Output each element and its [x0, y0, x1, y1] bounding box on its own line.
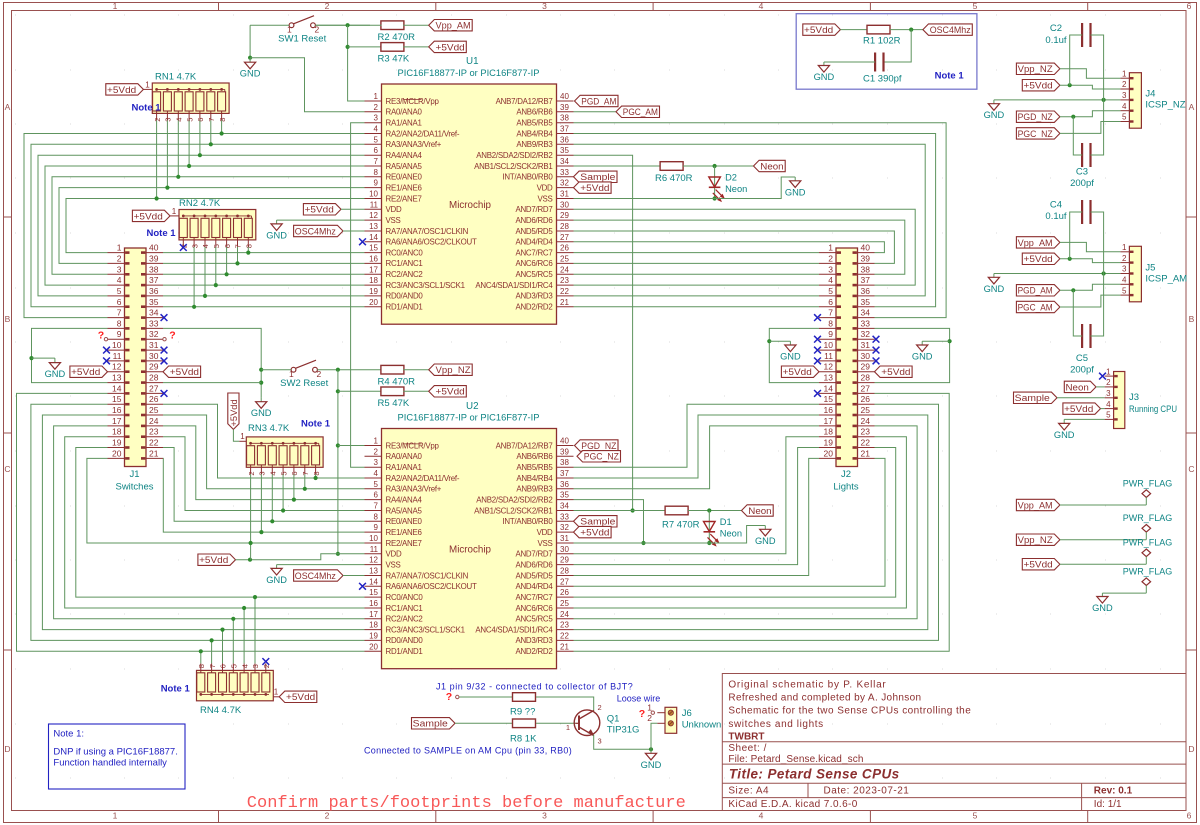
- svg-text:C1 390pf: C1 390pf: [863, 74, 902, 85]
- svg-text:ANB2/SDA2/SDI2/RB2: ANB2/SDA2/SDI2/RB2: [476, 151, 552, 160]
- svg-text:2: 2: [374, 103, 379, 112]
- svg-text:17: 17: [369, 265, 378, 274]
- svg-text:ANC4/SDA1/SDI1/RC4: ANC4/SDA1/SDI1/RC4: [475, 625, 553, 634]
- svg-text:C5: C5: [1076, 353, 1088, 364]
- svg-text:D: D: [1188, 744, 1194, 754]
- svg-text:28: 28: [149, 373, 159, 383]
- svg-text:30: 30: [560, 545, 569, 554]
- svg-text:21: 21: [149, 448, 159, 458]
- svg-text:18: 18: [369, 621, 378, 630]
- svg-text:INT/ANB0/RB0: INT/ANB0/RB0: [502, 517, 553, 526]
- svg-text:OSC4Mhz: OSC4Mhz: [295, 571, 336, 581]
- svg-text:RA5/ANA5: RA5/ANA5: [386, 506, 423, 515]
- svg-text:8: 8: [245, 244, 254, 248]
- svg-text:3: 3: [251, 664, 260, 668]
- svg-text:40: 40: [560, 92, 569, 101]
- svg-text:Vpp_AM: Vpp_AM: [1018, 238, 1053, 248]
- svg-text:11: 11: [824, 351, 833, 361]
- svg-text:+5Vdd: +5Vdd: [1064, 404, 1093, 414]
- svg-text:Neon: Neon: [725, 184, 747, 194]
- svg-text:RC0/ANC0: RC0/ANC0: [386, 593, 424, 602]
- svg-text:RE2/ANE7: RE2/ANE7: [386, 539, 422, 548]
- svg-text:36: 36: [560, 480, 569, 489]
- svg-text:RN1 4.7K: RN1 4.7K: [155, 72, 197, 83]
- svg-text:27: 27: [560, 577, 569, 586]
- svg-text:RD0/AND0: RD0/AND0: [386, 292, 424, 301]
- svg-text:RC2/ANC2: RC2/ANC2: [386, 615, 423, 624]
- svg-text:RA3/ANA3/Vref+: RA3/ANA3/Vref+: [386, 485, 442, 494]
- svg-text:AND6/RD6: AND6/RD6: [515, 216, 553, 225]
- svg-text:1: 1: [1122, 69, 1127, 78]
- svg-text:9: 9: [374, 523, 379, 532]
- svg-text:5: 5: [1122, 286, 1127, 295]
- svg-text:+5Vdd: +5Vdd: [804, 25, 833, 35]
- svg-text:4: 4: [175, 118, 184, 122]
- svg-text:OSC4Mhz: OSC4Mhz: [295, 226, 336, 236]
- svg-text:C4: C4: [1050, 200, 1062, 211]
- svg-text:VSS: VSS: [386, 216, 401, 225]
- svg-text:ANB1/SCL2/SCK2/RB1: ANB1/SCL2/SCK2/RB1: [474, 506, 552, 515]
- svg-text:AND6/RD6: AND6/RD6: [515, 560, 553, 569]
- svg-text:12: 12: [369, 556, 378, 565]
- svg-text:RD1/AND1: RD1/AND1: [386, 303, 423, 312]
- svg-text:RA1/ANA1: RA1/ANA1: [386, 463, 422, 472]
- svg-text:30: 30: [560, 200, 569, 209]
- svg-text:PWR_FLAG: PWR_FLAG: [1123, 538, 1173, 548]
- svg-text:D1: D1: [720, 517, 732, 527]
- svg-text:8: 8: [374, 168, 379, 177]
- svg-text:2: 2: [117, 253, 122, 263]
- svg-text:18: 18: [112, 427, 122, 437]
- svg-text:6: 6: [117, 297, 122, 307]
- svg-text:15: 15: [824, 394, 834, 404]
- svg-text:32: 32: [560, 523, 569, 532]
- svg-text:GND: GND: [1092, 603, 1113, 613]
- svg-text:6: 6: [196, 118, 205, 122]
- svg-text:RC0/ANC0: RC0/ANC0: [386, 248, 424, 257]
- svg-text:34: 34: [560, 502, 569, 511]
- svg-text:15: 15: [369, 588, 378, 597]
- svg-text:8: 8: [828, 318, 833, 328]
- svg-text:28: 28: [861, 373, 871, 383]
- svg-text:29: 29: [861, 362, 871, 372]
- svg-text:RA5/ANA5: RA5/ANA5: [386, 162, 423, 171]
- svg-text:DNP if using a PIC16F18877.: DNP if using a PIC16F18877.: [53, 747, 177, 758]
- svg-text:RN2 4.7K: RN2 4.7K: [179, 198, 221, 209]
- svg-text:5: 5: [117, 286, 122, 296]
- svg-text:File: Petard_Sense.kicad_sch: File: Petard_Sense.kicad_sch: [728, 754, 863, 765]
- svg-text:PGC_NZ: PGC_NZ: [1018, 129, 1054, 139]
- svg-text:Note 1: Note 1: [132, 103, 162, 114]
- svg-text:20: 20: [369, 298, 378, 307]
- svg-text:14: 14: [369, 577, 378, 586]
- svg-text:ICSP_NZ: ICSP_NZ: [1145, 100, 1185, 111]
- svg-text:+5Vdd: +5Vdd: [305, 205, 334, 215]
- svg-text:1: 1: [566, 723, 570, 732]
- svg-text:1: 1: [1106, 367, 1111, 376]
- svg-text:RA1/ANA1: RA1/ANA1: [386, 119, 422, 128]
- svg-text:Vpp_NZ: Vpp_NZ: [436, 365, 472, 375]
- svg-text:GND: GND: [45, 369, 66, 379]
- svg-text:VSS: VSS: [537, 539, 552, 548]
- svg-text:20: 20: [112, 448, 122, 458]
- svg-text:3: 3: [117, 264, 122, 274]
- svg-text:VDD: VDD: [537, 528, 553, 537]
- svg-text:U1: U1: [466, 56, 479, 67]
- svg-text:4: 4: [240, 664, 249, 668]
- svg-text:31: 31: [560, 190, 569, 199]
- svg-text:RE2/ANE7: RE2/ANE7: [386, 194, 422, 203]
- svg-text:J1 pin 9/32 - connected to col: J1 pin 9/32 - connected to collector of …: [436, 682, 633, 692]
- svg-text:OSC4Mhz: OSC4Mhz: [930, 25, 971, 35]
- svg-text:+5Vdd: +5Vdd: [580, 528, 609, 538]
- svg-text:40: 40: [861, 243, 871, 253]
- svg-text:36: 36: [560, 135, 569, 144]
- svg-text:R4 470R: R4 470R: [378, 376, 416, 387]
- svg-text:18: 18: [824, 427, 834, 437]
- svg-text:37: 37: [861, 275, 871, 285]
- svg-text:38: 38: [560, 114, 569, 123]
- svg-text:9: 9: [117, 329, 122, 339]
- svg-text:13: 13: [824, 373, 834, 383]
- svg-text:15: 15: [369, 244, 378, 253]
- svg-text:Refreshed and completed by A.: Refreshed and completed by A. Johnson: [728, 693, 921, 704]
- svg-text:Title: Petard Sense CPUs: Title: Petard Sense CPUs: [729, 766, 900, 781]
- svg-text:9: 9: [828, 329, 833, 339]
- svg-text:2: 2: [1122, 254, 1127, 263]
- svg-text:23: 23: [560, 621, 569, 630]
- svg-text:Size: A4: Size: A4: [728, 785, 769, 796]
- svg-text:SW2 Reset: SW2 Reset: [280, 378, 328, 389]
- svg-text:R5 47K: R5 47K: [378, 398, 410, 409]
- svg-text:3: 3: [828, 264, 833, 274]
- svg-text:1: 1: [117, 243, 122, 253]
- svg-text:RA6/ANA6/OSC2/CLKOUT: RA6/ANA6/OSC2/CLKOUT: [386, 582, 477, 591]
- svg-text:27: 27: [149, 383, 159, 393]
- svg-text:ANB9/RB3: ANB9/RB3: [516, 140, 553, 149]
- svg-text:11: 11: [113, 351, 122, 361]
- svg-text:4: 4: [759, 1, 764, 11]
- svg-text:ANB9/RB3: ANB9/RB3: [516, 485, 553, 494]
- svg-text:2: 2: [374, 447, 379, 456]
- svg-text:31: 31: [149, 340, 159, 350]
- svg-text:27: 27: [560, 233, 569, 242]
- svg-text:GND: GND: [912, 352, 933, 362]
- svg-text:+5Vdd: +5Vdd: [580, 183, 609, 193]
- svg-text:14: 14: [369, 233, 378, 242]
- svg-text:0.1uf: 0.1uf: [1045, 35, 1066, 46]
- svg-text:RD1/AND1: RD1/AND1: [386, 647, 423, 656]
- svg-text:ANC5/RC5: ANC5/RC5: [515, 615, 553, 624]
- svg-text:37: 37: [560, 469, 569, 478]
- svg-text:Note 1:: Note 1:: [53, 729, 84, 740]
- svg-text:AND2/RD2: AND2/RD2: [515, 303, 552, 312]
- svg-text:34: 34: [861, 308, 871, 318]
- svg-text:25: 25: [149, 405, 159, 415]
- svg-text:7: 7: [374, 157, 379, 166]
- svg-text:+5Vdd: +5Vdd: [71, 367, 100, 377]
- svg-text:16: 16: [824, 405, 834, 415]
- svg-text:AND4/RD4: AND4/RD4: [515, 582, 553, 591]
- svg-text:35: 35: [560, 491, 569, 500]
- svg-text:18: 18: [369, 276, 378, 285]
- svg-text:4: 4: [269, 471, 278, 475]
- svg-text:8: 8: [312, 471, 321, 475]
- svg-text:30: 30: [861, 351, 871, 361]
- svg-text:ANB7/DA12/RB7: ANB7/DA12/RB7: [496, 441, 553, 450]
- svg-text:GND: GND: [814, 72, 835, 82]
- svg-text:+5Vdd: +5Vdd: [286, 692, 315, 702]
- svg-text:0.1uf: 0.1uf: [1045, 211, 1066, 222]
- svg-text:7: 7: [207, 118, 216, 122]
- svg-text:5: 5: [374, 480, 379, 489]
- svg-text:KiCad E.D.A. kicad 7.0.6-0: KiCad E.D.A. kicad 7.0.6-0: [728, 799, 857, 810]
- svg-text:GND: GND: [984, 284, 1005, 294]
- svg-text:C3: C3: [1076, 167, 1088, 178]
- svg-text:7: 7: [828, 308, 833, 318]
- svg-text:PGD_AM: PGD_AM: [1018, 286, 1053, 296]
- svg-text:1: 1: [374, 437, 379, 446]
- svg-text:19: 19: [824, 438, 834, 448]
- svg-text:PGD_AM: PGD_AM: [581, 96, 616, 106]
- svg-text:TIP31G: TIP31G: [607, 724, 640, 735]
- svg-text:GND: GND: [251, 408, 272, 418]
- svg-text:R9 ??: R9 ??: [510, 707, 535, 718]
- svg-text:J3: J3: [1129, 392, 1139, 403]
- svg-text:ANB6/RB6: ANB6/RB6: [516, 452, 553, 461]
- svg-text:PGC_AM: PGC_AM: [623, 107, 658, 117]
- svg-text:3: 3: [190, 244, 199, 248]
- svg-text:5: 5: [230, 664, 239, 668]
- svg-text:6: 6: [374, 491, 379, 500]
- svg-text:A: A: [5, 102, 11, 112]
- svg-text:11: 11: [370, 200, 379, 209]
- svg-text:23: 23: [560, 276, 569, 285]
- svg-text:37: 37: [560, 125, 569, 134]
- svg-text:ANB4/RB4: ANB4/RB4: [516, 474, 553, 483]
- svg-text:39: 39: [861, 253, 871, 263]
- svg-text:RC3/ANC3/SCL1/SCK1: RC3/ANC3/SCL1/SCK1: [386, 281, 465, 290]
- svg-text:TWBRT: TWBRT: [728, 732, 764, 743]
- svg-text:35: 35: [560, 146, 569, 155]
- svg-text:PGD_NZ: PGD_NZ: [581, 441, 617, 451]
- svg-text:B: B: [5, 314, 11, 324]
- svg-text:20: 20: [369, 642, 378, 651]
- svg-text:32: 32: [861, 329, 871, 339]
- svg-text:39: 39: [149, 253, 159, 263]
- svg-text:21: 21: [861, 448, 871, 458]
- svg-text:GND: GND: [266, 575, 287, 585]
- svg-text:Confirm parts/footprints befor: Confirm parts/footprints before manufact…: [247, 793, 686, 812]
- svg-text:+5Vdd: +5Vdd: [229, 399, 239, 426]
- svg-text:8: 8: [117, 318, 122, 328]
- svg-text:5: 5: [1106, 411, 1111, 420]
- svg-text:5: 5: [973, 811, 978, 821]
- svg-text:200pf: 200pf: [1070, 178, 1094, 189]
- svg-text:ANB4/RB4: ANB4/RB4: [516, 129, 553, 138]
- svg-text:?: ?: [169, 330, 175, 342]
- svg-text:4: 4: [374, 469, 379, 478]
- svg-text:GND: GND: [984, 110, 1005, 120]
- svg-text:13: 13: [369, 222, 378, 231]
- svg-text:10: 10: [369, 190, 378, 199]
- svg-text:A: A: [1189, 102, 1195, 112]
- svg-text:VSS: VSS: [386, 560, 401, 569]
- svg-text:ANC7/RC7: ANC7/RC7: [515, 248, 552, 257]
- svg-text:37: 37: [149, 275, 159, 285]
- svg-text:36: 36: [149, 286, 159, 296]
- svg-text:+5Vdd: +5Vdd: [1024, 560, 1053, 570]
- svg-text:36: 36: [861, 286, 871, 296]
- svg-text:Id: 1/1: Id: 1/1: [1094, 799, 1122, 810]
- svg-text:3: 3: [374, 458, 379, 467]
- svg-text:SW1 Reset: SW1 Reset: [278, 34, 326, 45]
- svg-text:40: 40: [149, 243, 159, 253]
- svg-text:40: 40: [560, 437, 569, 446]
- svg-text:2: 2: [247, 471, 256, 475]
- svg-text:ANC5/RC5: ANC5/RC5: [515, 270, 553, 279]
- svg-text:28: 28: [560, 222, 569, 231]
- svg-text:25: 25: [560, 254, 569, 263]
- svg-text:Vpp_AM: Vpp_AM: [1018, 500, 1053, 510]
- svg-text:ANB7/DA12/RB7: ANB7/DA12/RB7: [496, 97, 553, 106]
- svg-text:12: 12: [824, 362, 834, 372]
- svg-text:ANC6/RC6: ANC6/RC6: [515, 259, 553, 268]
- svg-text:RA6/ANA6/OSC2/CLKOUT: RA6/ANA6/OSC2/CLKOUT: [386, 238, 477, 247]
- svg-text:26: 26: [861, 394, 871, 404]
- svg-text:Lights: Lights: [833, 482, 859, 493]
- svg-text:4: 4: [1122, 102, 1127, 111]
- svg-text:1: 1: [145, 81, 150, 90]
- svg-text:26: 26: [560, 588, 569, 597]
- svg-text:17: 17: [824, 416, 834, 426]
- svg-text:+5Vdd: +5Vdd: [170, 367, 199, 377]
- svg-text:4: 4: [1122, 276, 1127, 285]
- svg-text:3: 3: [258, 471, 267, 475]
- svg-text:J2: J2: [841, 469, 851, 480]
- svg-text:RN4 4.7K: RN4 4.7K: [200, 705, 242, 716]
- svg-text:J1: J1: [129, 469, 139, 480]
- svg-text:C: C: [1188, 464, 1194, 474]
- svg-text:1: 1: [113, 1, 118, 11]
- svg-text:5: 5: [185, 118, 194, 122]
- svg-text:Rev: 0.1: Rev: 0.1: [1094, 785, 1133, 796]
- svg-text:34: 34: [560, 157, 569, 166]
- svg-text:21: 21: [560, 642, 569, 651]
- svg-text:AND2/RD2: AND2/RD2: [515, 647, 552, 656]
- svg-text:24: 24: [560, 265, 569, 274]
- svg-text:Date: 2023-07-21: Date: 2023-07-21: [824, 785, 910, 796]
- svg-text:Note 1: Note 1: [147, 228, 177, 239]
- svg-text:R2 470R: R2 470R: [378, 32, 416, 43]
- svg-text:+5Vdd: +5Vdd: [199, 555, 228, 565]
- svg-text:Q1: Q1: [607, 714, 620, 725]
- svg-text:38: 38: [560, 458, 569, 467]
- svg-text:R7 470R: R7 470R: [662, 520, 700, 531]
- svg-text:RA0/ANA0: RA0/ANA0: [386, 452, 423, 461]
- svg-text:Sample: Sample: [580, 172, 615, 182]
- svg-text:17: 17: [369, 610, 378, 619]
- svg-text:22: 22: [560, 631, 569, 640]
- svg-text:?: ?: [98, 330, 104, 342]
- svg-text:RN3 4.7K: RN3 4.7K: [248, 423, 290, 434]
- svg-text:Note 1: Note 1: [935, 71, 965, 82]
- svg-text:VDD: VDD: [537, 183, 553, 192]
- svg-text:10: 10: [369, 534, 378, 543]
- svg-text:Microchip: Microchip: [449, 200, 491, 211]
- svg-text:21: 21: [560, 298, 569, 307]
- svg-text:INT/ANB0/RB0: INT/ANB0/RB0: [502, 173, 553, 182]
- svg-text:Sample: Sample: [580, 517, 615, 527]
- svg-text:26: 26: [560, 244, 569, 253]
- svg-text:19: 19: [112, 438, 122, 448]
- svg-text:34: 34: [149, 308, 159, 318]
- svg-text:7: 7: [374, 502, 379, 511]
- svg-text:RA4/ANA4: RA4/ANA4: [386, 151, 423, 160]
- svg-text:2: 2: [647, 713, 652, 723]
- svg-text:1: 1: [172, 207, 177, 216]
- svg-text:1: 1: [274, 688, 279, 697]
- svg-text:GND: GND: [641, 760, 662, 770]
- svg-text:22: 22: [149, 438, 159, 448]
- svg-text:ICSP_AM: ICSP_AM: [1145, 273, 1187, 284]
- svg-text:13: 13: [112, 373, 122, 383]
- svg-text:14: 14: [112, 383, 122, 393]
- svg-text:4: 4: [117, 275, 122, 285]
- svg-text:2: 2: [325, 811, 330, 821]
- svg-text:6: 6: [290, 471, 299, 475]
- svg-text:R6 470R: R6 470R: [655, 173, 693, 184]
- svg-text:33: 33: [861, 318, 871, 328]
- svg-text:AND3/RD3: AND3/RD3: [515, 292, 553, 301]
- svg-text:8: 8: [197, 664, 206, 668]
- svg-text:2: 2: [153, 118, 162, 122]
- svg-text:24: 24: [149, 416, 159, 426]
- svg-text:Note 1: Note 1: [301, 419, 331, 430]
- svg-text:11: 11: [370, 545, 379, 554]
- svg-text:32: 32: [149, 329, 159, 339]
- svg-text:25: 25: [861, 405, 871, 415]
- svg-text:+5Vdd: +5Vdd: [783, 367, 812, 377]
- svg-text:32: 32: [560, 179, 569, 188]
- svg-text:7: 7: [234, 244, 243, 248]
- svg-text:?: ?: [446, 691, 452, 703]
- svg-text:RA4/ANA4: RA4/ANA4: [386, 495, 423, 504]
- svg-text:AND3/RD3: AND3/RD3: [515, 636, 553, 645]
- svg-text:16: 16: [112, 405, 122, 415]
- svg-text:PIC16F18877-IP or PIC16F877-IP: PIC16F18877-IP or PIC16F877-IP: [398, 413, 540, 423]
- svg-text:25: 25: [560, 599, 569, 608]
- svg-text:15: 15: [112, 394, 122, 404]
- svg-text:+5Vdd: +5Vdd: [134, 211, 163, 221]
- svg-text:GND: GND: [1054, 430, 1075, 440]
- svg-text:RE0/ANE0: RE0/ANE0: [386, 173, 423, 182]
- svg-text:PIC16F18877-IP or PIC16F877-IP: PIC16F18877-IP or PIC16F877-IP: [398, 68, 540, 78]
- svg-text:RE0/ANE0: RE0/ANE0: [386, 517, 423, 526]
- svg-text:3: 3: [598, 737, 602, 746]
- svg-text:6: 6: [1187, 811, 1192, 821]
- svg-text:20: 20: [824, 448, 834, 458]
- svg-text:RC3/ANC3/SCL1/SCK1: RC3/ANC3/SCL1/SCK1: [386, 625, 465, 634]
- svg-text:+5Vdd: +5Vdd: [107, 85, 136, 95]
- svg-text:ANC4/SDA1/SDI1/RC4: ANC4/SDA1/SDI1/RC4: [475, 281, 553, 290]
- svg-text:GND: GND: [240, 69, 261, 79]
- svg-text:35: 35: [861, 297, 871, 307]
- svg-text:2: 2: [598, 703, 602, 712]
- svg-text:B: B: [1189, 314, 1195, 324]
- svg-text:RE3/MCLR/Vpp: RE3/MCLR/Vpp: [386, 441, 440, 450]
- svg-text:3: 3: [374, 114, 379, 123]
